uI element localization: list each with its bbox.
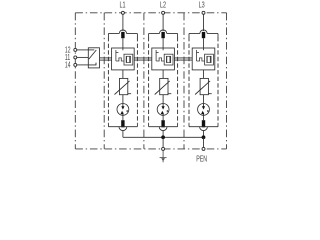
svg-text:L2: L2 [160, 1, 166, 10]
plug-in socket contact top (L1 path) [108, 30, 137, 37]
wire spark gap box to varistor (L1 path) [122, 70, 124, 79]
terminal 11 [74, 56, 77, 59]
label L2 [160, 1, 166, 10]
wire L2 terminal down to plug contact [162, 14, 164, 31]
wire bar to spark gap box (L1 path) [122, 38, 124, 50]
operation/defect indicator (L3 path) [198, 104, 210, 116]
triggered spark gap U1 (box) [112, 48, 135, 70]
label L3 [199, 1, 205, 10]
wire L1 terminal down to plug contact [122, 14, 124, 31]
PEN bus wire [123, 136, 204, 138]
svg-text:L1: L1 [120, 1, 126, 10]
terminal L3 [202, 11, 205, 14]
wire varistor to indicator (L1 path) [122, 95, 124, 104]
junction dot at L3 column [202, 135, 206, 139]
operation/defect indicator (L2 path) [157, 104, 169, 116]
disconnection device bottom (black bar, L2 path) [161, 120, 164, 127]
wire terminal 11 to FM contact [77, 56, 88, 58]
label 14 [65, 62, 71, 70]
wire varistor to indicator (L2 path) [162, 95, 164, 104]
operation/defect indicator (L1 path) [117, 104, 129, 116]
wire indicator to bottom bar (L2 path) [162, 115, 164, 120]
label PEN [196, 155, 207, 163]
wire indicator to bottom bar (L1 path) [122, 115, 124, 120]
internal section separator 2 (dash-dot) [143, 13, 145, 149]
wire bar to spark gap box (L3 path) [203, 38, 205, 50]
varistor with thermal disconnector (L1 path) [115, 78, 132, 94]
disconnection device top (black bar, L3 path) [202, 32, 205, 38]
wire spark gap box to varistor (L2 path) [162, 70, 164, 79]
triggered spark gap U3 (box) [192, 48, 215, 70]
internal section separator 3 (dash-dot) [183, 13, 185, 149]
wire terminal 12 to FM contact [77, 49, 88, 51]
wire terminal 14 to FM contact [77, 64, 88, 66]
wire spark gap box to varistor (L3 path) [203, 70, 205, 79]
protection module boundary (dashed, L2 path) [149, 37, 178, 124]
plug-in socket contact bottom (L3 path) [189, 124, 218, 131]
label 11 [65, 54, 70, 62]
plug-in socket contact bottom (L1 path) [108, 124, 137, 131]
wire varistor to indicator (L3 path) [203, 95, 205, 104]
svg-text:L3: L3 [199, 1, 205, 10]
terminal 14 [74, 63, 77, 66]
earth electrode symbol (arrow to earth) [160, 151, 167, 163]
disconnection device top (black bar, L1 path) [121, 32, 124, 38]
terminal L1 [121, 11, 124, 14]
junction dot at L2 column [161, 135, 165, 139]
varistor with thermal disconnector (L3 path) [195, 78, 212, 94]
wire bus to earth terminal [162, 137, 164, 147]
wire bus to PEN terminal [203, 137, 205, 147]
label 12 [65, 47, 71, 55]
internal section separator 1 (dash-dot) [103, 13, 105, 149]
wire bottom contact to PEN bus (L2 path) [162, 131, 164, 138]
label L1 [120, 1, 126, 10]
wire bar to spark gap box (L2 path) [162, 38, 164, 50]
svg-text:PEN: PEN [196, 155, 207, 163]
disconnection device bottom (black bar, L3 path) [202, 120, 205, 127]
wire bottom contact to PEN bus (L3 path) [203, 131, 205, 138]
disconnection device bottom (black bar, L1 path) [121, 120, 124, 127]
terminal 12 [74, 48, 77, 51]
mechanical linkage double line [100, 58, 193, 60]
protection module boundary (dashed, L1 path) [108, 37, 137, 124]
earth terminal node [162, 147, 165, 150]
PEN terminal node [202, 147, 205, 150]
wire L3 terminal down to plug contact [203, 14, 205, 31]
plug-in socket contact bottom (L2 path) [149, 124, 178, 131]
disconnection device top (black bar, L2 path) [161, 32, 164, 38]
plug-in socket contact top (L3 path) [189, 30, 218, 37]
triggered spark gap U2 (box) [152, 48, 175, 70]
wire bottom contact to PEN bus (L1 path) [122, 131, 124, 138]
terminal L2 [162, 11, 165, 14]
protection module boundary (dashed, L3 path) [189, 37, 218, 124]
wire indicator to bottom bar (L3 path) [203, 115, 205, 120]
plug-in socket contact top (L2 path) [149, 30, 178, 37]
varistor with thermal disconnector (L2 path) [155, 78, 172, 94]
device enclosure boundary (dash-dot frame) [75, 13, 226, 149]
svg-text:14: 14 [65, 62, 71, 70]
remote signalling changeover contact (FM) [88, 48, 99, 68]
